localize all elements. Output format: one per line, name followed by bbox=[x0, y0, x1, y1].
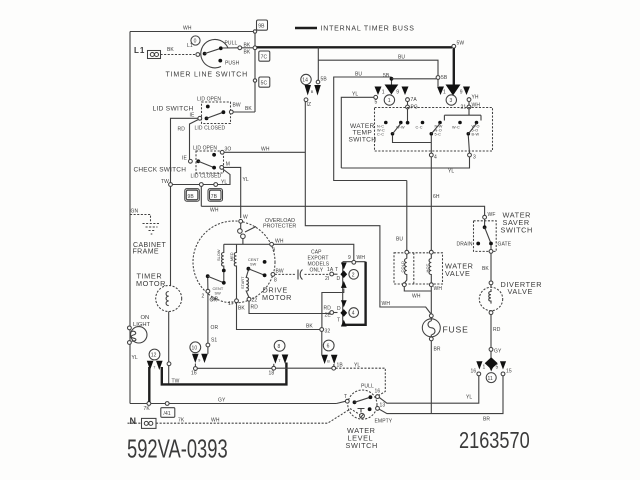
wire motor internal WH line bbox=[224, 243, 270, 245]
svg-text:BU: BU bbox=[398, 55, 405, 61]
svg-text:3: 3 bbox=[473, 155, 476, 161]
svg-text:1: 1 bbox=[382, 90, 385, 96]
switch 8 bbox=[269, 340, 289, 376]
svg-text:WH: WH bbox=[210, 208, 219, 214]
svg-text:9: 9 bbox=[396, 90, 399, 96]
svg-text:RD: RD bbox=[178, 127, 186, 133]
svg-text:L1: L1 bbox=[134, 46, 145, 55]
wire 6H pin4 down to hot valve bbox=[430, 157, 432, 250]
wire YL loop bottom to pin3 bbox=[341, 157, 469, 168]
svg-text:18: 18 bbox=[269, 371, 275, 377]
wire BU switch1 to cold valve outer loop bbox=[334, 77, 407, 181]
wire switch10 to switch8 row bbox=[197, 367, 331, 369]
svg-text:WH: WH bbox=[357, 255, 366, 261]
wire internal timer buss main bbox=[257, 46, 453, 48]
wire switch12 right leg to switch8 thick bbox=[162, 363, 287, 385]
wire temp poles to pins 4 and 3 bbox=[393, 136, 470, 154]
svg-text:TEMP: TEMP bbox=[353, 130, 373, 137]
wire motor 17 BK to node 32 bbox=[237, 303, 320, 330]
svg-text:11: 11 bbox=[488, 376, 494, 382]
svg-text:WH: WH bbox=[275, 239, 284, 245]
svg-text:YL: YL bbox=[466, 395, 472, 401]
svg-text:6: 6 bbox=[327, 344, 330, 350]
wire lid switch to buss BK bbox=[233, 111, 255, 113]
svg-text:BK: BK bbox=[167, 47, 174, 53]
svg-text:YL: YL bbox=[352, 92, 358, 98]
wire N line to water level empty bbox=[128, 409, 361, 423]
svg-text:5B: 5B bbox=[383, 73, 390, 79]
svg-text:7K: 7K bbox=[178, 418, 185, 424]
wire check M to row corner bbox=[218, 169, 231, 185]
svg-text:8: 8 bbox=[278, 344, 281, 350]
svg-text:5C: 5C bbox=[261, 81, 268, 87]
svg-text:W: W bbox=[243, 215, 248, 221]
svg-text:BK: BK bbox=[306, 324, 313, 330]
svg-text:CHECK SWITCH: CHECK SWITCH bbox=[134, 167, 187, 174]
ground cabinet frame bbox=[143, 224, 161, 235]
svg-text:GY: GY bbox=[494, 349, 502, 355]
svg-text:VALVE: VALVE bbox=[445, 269, 470, 278]
wire water saver BK to diverter bbox=[490, 253, 492, 287]
wire switch12 left leg 7K bbox=[148, 367, 150, 402]
svg-text:T: T bbox=[278, 359, 281, 363]
svg-text:COLD: COLD bbox=[400, 261, 405, 273]
svg-text:13: 13 bbox=[380, 403, 386, 409]
svg-text:BW: BW bbox=[276, 269, 284, 275]
svg-text:VALVE: VALVE bbox=[508, 287, 533, 296]
svg-text:M: M bbox=[226, 162, 230, 168]
node motor terminal 9 WH bbox=[270, 242, 274, 246]
svg-text:LID OPEN: LID OPEN bbox=[193, 145, 217, 151]
wire TW down to timer motor bbox=[170, 186, 172, 285]
switch 12 bbox=[147, 349, 163, 370]
svg-text:GY: GY bbox=[218, 398, 226, 404]
water temp contacts bbox=[377, 121, 480, 137]
svg-text:C-C: C-C bbox=[416, 126, 423, 130]
svg-text:5-C: 5-C bbox=[435, 133, 442, 137]
svg-text:YL: YL bbox=[243, 177, 249, 183]
switch 6 bbox=[321, 340, 343, 370]
on light lamp bbox=[127, 326, 147, 344]
wire switch14 down WH dash to check line bbox=[304, 102, 306, 152]
svg-text:15: 15 bbox=[506, 369, 512, 375]
capacitor C1 dashed link bbox=[275, 267, 338, 282]
wire YL switch1 pin5 loop bbox=[341, 97, 374, 168]
svg-text:IZ: IZ bbox=[307, 102, 312, 108]
node motor W terminal bbox=[239, 219, 243, 223]
svg-text:SWITCH: SWITCH bbox=[501, 226, 533, 235]
svg-text:4: 4 bbox=[352, 311, 355, 317]
svg-text:/41: /41 bbox=[164, 411, 171, 417]
svg-text:LID CLOSED: LID CLOSED bbox=[191, 174, 222, 180]
svg-text:EMPTY: EMPTY bbox=[375, 419, 393, 425]
svg-text:12: 12 bbox=[151, 353, 157, 359]
svg-text:BK: BK bbox=[245, 106, 252, 112]
svg-text:9: 9 bbox=[348, 255, 351, 261]
svg-text:0: 0 bbox=[194, 39, 197, 45]
svg-text:YL: YL bbox=[448, 169, 454, 175]
svg-text:9: 9 bbox=[198, 359, 200, 363]
svg-text:17: 17 bbox=[228, 301, 234, 307]
svg-text:MOTOR: MOTOR bbox=[136, 279, 166, 288]
svg-text:YL: YL bbox=[221, 180, 227, 186]
svg-text:IE: IE bbox=[182, 156, 187, 162]
wire GY diagonal to water level T bbox=[336, 401, 345, 403]
svg-text:1B: 1B bbox=[337, 363, 344, 369]
node motor terminal 22 bbox=[247, 297, 251, 301]
svg-text:1: 1 bbox=[483, 365, 486, 371]
wire left border to GY bottom line bbox=[130, 403, 336, 405]
svg-text:BR: BR bbox=[434, 347, 441, 353]
wire buss end 5W down to switch3 bbox=[452, 44, 456, 48]
svg-text:MOTOR: MOTOR bbox=[262, 293, 292, 302]
svg-text:W-C: W-C bbox=[452, 126, 460, 130]
svg-text:TIMER LINE SWITCH: TIMER LINE SWITCH bbox=[166, 72, 248, 79]
water level switch bbox=[344, 384, 393, 425]
wire motor 22 RD to switch4 bbox=[249, 301, 330, 313]
node 7B connector row bbox=[208, 189, 223, 202]
svg-text:592VA-0393: 592VA-0393 bbox=[127, 435, 228, 464]
svg-text:9: 9 bbox=[460, 90, 463, 96]
wire buss tap down at 318 bbox=[317, 47, 319, 80]
svg-text:2: 2 bbox=[202, 294, 205, 300]
svg-text:OR: OR bbox=[211, 297, 219, 303]
switch 10 bbox=[190, 342, 208, 377]
svg-text:SW: SW bbox=[215, 292, 222, 296]
svg-text:C-C: C-C bbox=[377, 133, 384, 137]
timer line switch U0 bbox=[191, 36, 253, 68]
svg-text:PULL: PULL bbox=[361, 384, 374, 390]
water valve hot solenoid bbox=[425, 250, 433, 286]
svg-text:N: N bbox=[130, 416, 137, 426]
svg-text:BU: BU bbox=[355, 72, 362, 78]
svg-text:WH: WH bbox=[382, 301, 391, 307]
svg-text:5: 5 bbox=[496, 365, 499, 371]
svg-text:9B: 9B bbox=[188, 194, 195, 200]
svg-text:SW: SW bbox=[250, 263, 257, 267]
svg-text:5W: 5W bbox=[457, 41, 465, 47]
svg-text:RD: RD bbox=[324, 306, 332, 312]
wire L1 to timer line switch BK bbox=[161, 54, 196, 56]
svg-text:5: 5 bbox=[375, 100, 378, 106]
wire motor 2 OR down to switch 10 bbox=[207, 293, 209, 354]
svg-text:1: 1 bbox=[443, 90, 446, 96]
svg-text:8: 8 bbox=[274, 278, 277, 284]
wire check switch WH to right bbox=[224, 151, 305, 153]
switch 14 bbox=[301, 74, 321, 108]
svg-text:DRAIN: DRAIN bbox=[457, 242, 473, 248]
node block terminal 9 WH bbox=[352, 260, 356, 264]
svg-text:D: D bbox=[337, 276, 341, 282]
svg-text:RD: RD bbox=[493, 327, 501, 333]
svg-text:22: 22 bbox=[252, 298, 258, 304]
svg-text:S1: S1 bbox=[211, 338, 217, 344]
svg-text:T: T bbox=[335, 267, 338, 273]
svg-text:14: 14 bbox=[302, 78, 308, 84]
lid switch bbox=[153, 97, 241, 133]
svg-text:INTERNAL TIMER BUSS: INTERNAL TIMER BUSS bbox=[321, 26, 415, 33]
wire top WH line L1 side bbox=[130, 31, 253, 33]
svg-text:BW: BW bbox=[233, 103, 241, 109]
svg-text:7C: 7C bbox=[261, 55, 268, 61]
node 5C connector bbox=[259, 77, 270, 87]
switch 4 bbox=[324, 300, 359, 326]
ground GN wire bbox=[130, 215, 151, 223]
svg-text:2: 2 bbox=[352, 273, 355, 279]
wire BU down to cold valve bbox=[406, 181, 408, 251]
svg-text:9: 9 bbox=[273, 248, 276, 254]
svg-text:BU: BU bbox=[396, 237, 403, 243]
motor slow winding bbox=[217, 244, 226, 272]
motor med winding bbox=[230, 244, 237, 299]
node 7C connector bbox=[259, 51, 270, 61]
svg-text:WH: WH bbox=[211, 418, 220, 424]
svg-text:MED: MED bbox=[230, 252, 234, 261]
svg-text:16: 16 bbox=[191, 371, 197, 377]
svg-text:FRAME: FRAME bbox=[133, 249, 160, 256]
timer motor bbox=[156, 286, 182, 312]
svg-text:3: 3 bbox=[450, 98, 453, 104]
svg-text:WH: WH bbox=[261, 147, 270, 153]
svg-text:T: T bbox=[344, 394, 347, 400]
svg-text:7A: 7A bbox=[411, 97, 418, 103]
svg-text:T: T bbox=[337, 318, 340, 324]
diverter valve bbox=[479, 281, 502, 315]
connector N plug bbox=[142, 418, 157, 428]
wire block step to node 32 bbox=[322, 289, 344, 328]
svg-text:PUSH: PUSH bbox=[225, 61, 240, 67]
wire buss branch to SB switch3 bbox=[318, 60, 438, 75]
connector L1 plug bbox=[148, 51, 161, 59]
svg-text:B: B bbox=[327, 360, 330, 364]
water valve box bbox=[394, 253, 474, 284]
svg-text:YH: YH bbox=[472, 95, 479, 101]
svg-text:5B: 5B bbox=[441, 75, 448, 81]
wire left border L1 vertical bbox=[129, 32, 131, 404]
wire diverter RD down to switch11 bbox=[490, 315, 492, 348]
svg-text:16: 16 bbox=[471, 369, 477, 375]
svg-text:6H: 6H bbox=[433, 194, 440, 200]
wire row to long WH line bbox=[200, 186, 202, 206]
wire water level 13 BR right bbox=[379, 376, 503, 414]
svg-text:WH: WH bbox=[412, 294, 421, 300]
fuse bbox=[422, 314, 468, 341]
svg-text:B-W: B-W bbox=[472, 133, 480, 137]
svg-text:CENT: CENT bbox=[213, 287, 224, 291]
svg-text:4: 4 bbox=[434, 155, 437, 161]
svg-text:3O: 3O bbox=[225, 147, 232, 153]
svg-text:YL: YL bbox=[354, 363, 360, 369]
svg-text:5B: 5B bbox=[321, 77, 328, 83]
node 32 junction bbox=[320, 328, 324, 332]
wire motor WH line out to block bbox=[274, 244, 354, 260]
svg-text:LID SWITCH: LID SWITCH bbox=[153, 106, 194, 113]
svg-text:SLOW: SLOW bbox=[217, 249, 221, 261]
terminal block box bbox=[343, 262, 366, 325]
svg-text:BK: BK bbox=[482, 266, 489, 272]
node motor terminal 17 bbox=[235, 299, 239, 303]
drive motor boundary bbox=[193, 221, 275, 303]
svg-text:FUSE: FUSE bbox=[443, 325, 469, 335]
svg-text:ONLY: ONLY bbox=[310, 268, 324, 274]
svg-text:SWITCH: SWITCH bbox=[349, 137, 377, 144]
water saver switch bbox=[457, 212, 512, 253]
svg-text:BR: BR bbox=[483, 417, 490, 423]
svg-text:7K: 7K bbox=[144, 406, 151, 412]
svg-text:CENT: CENT bbox=[248, 258, 259, 262]
svg-text:2I: 2I bbox=[325, 276, 329, 282]
svg-text:OR: OR bbox=[211, 325, 219, 331]
wire valve bottoms WH join bbox=[404, 287, 431, 314]
svg-text:WH: WH bbox=[183, 26, 192, 32]
svg-text:SWITCH: SWITCH bbox=[346, 441, 378, 450]
wire check M to motor YL bbox=[224, 167, 241, 218]
svg-text:RD: RD bbox=[251, 305, 259, 311]
node 9B connector top bbox=[257, 20, 268, 30]
internal timer buss legend bbox=[295, 26, 415, 33]
wire switch3 WH into box contacts bbox=[444, 109, 481, 121]
motor cent sw upper bbox=[247, 258, 284, 284]
svg-text:1A: 1A bbox=[327, 267, 334, 273]
wire lid common down to TW row bbox=[171, 118, 198, 182]
svg-text:ON: ON bbox=[141, 315, 150, 321]
wire TW row bbox=[172, 184, 213, 186]
svg-text:9B: 9B bbox=[258, 24, 265, 30]
svg-text:TW: TW bbox=[161, 179, 169, 185]
svg-text:10: 10 bbox=[192, 346, 198, 352]
svg-text:PULL: PULL bbox=[225, 41, 238, 47]
svg-text:GN: GN bbox=[131, 209, 139, 215]
svg-text:WF: WF bbox=[488, 212, 496, 218]
svg-text:D: D bbox=[337, 306, 341, 312]
motor cent sw lower bbox=[202, 272, 226, 303]
svg-text:START: START bbox=[241, 276, 245, 289]
wire timer motor down TW bbox=[168, 312, 170, 385]
node 41 connector bbox=[161, 408, 175, 418]
svg-text:B: B bbox=[311, 90, 314, 94]
switch 1 cluster bbox=[374, 85, 418, 125]
svg-text:7B: 7B bbox=[211, 194, 218, 200]
svg-text:1: 1 bbox=[388, 98, 391, 104]
switch 2 bbox=[334, 263, 359, 288]
water temp switch box bbox=[349, 108, 493, 152]
water valve cold solenoid bbox=[400, 250, 409, 286]
wire node32 down to switch6 bbox=[321, 331, 323, 354]
wire SB link to 5W vertical bbox=[392, 78, 437, 80]
svg-text:2163570: 2163570 bbox=[459, 428, 530, 454]
svg-text:BK: BK bbox=[238, 306, 245, 312]
svg-text:PROTECTER: PROTECTER bbox=[263, 224, 296, 230]
svg-text:BK: BK bbox=[244, 50, 251, 56]
wire switch6 YL to water level 16 bbox=[336, 368, 386, 395]
svg-text:WH: WH bbox=[434, 286, 443, 292]
wire timer buss vertical 9B-7C-5C bbox=[254, 30, 256, 112]
wire water level 16 YL right to switch11 bbox=[379, 376, 479, 404]
switch 11 bbox=[471, 351, 512, 382]
check switch bbox=[134, 145, 232, 179]
svg-text:W-W: W-W bbox=[396, 126, 405, 130]
svg-text:YL: YL bbox=[132, 355, 138, 361]
label cap export models only bbox=[308, 250, 330, 274]
svg-text:7: 7 bbox=[153, 366, 155, 370]
svg-text:LID CLOSED: LID CLOSED bbox=[195, 126, 226, 132]
wire long WH line to water saver bbox=[201, 206, 484, 215]
svg-text:GATE: GATE bbox=[498, 242, 512, 248]
svg-text:16: 16 bbox=[375, 389, 381, 395]
wire lid common to check switch RD bbox=[190, 120, 199, 160]
svg-text:IE: IE bbox=[190, 113, 195, 119]
wire fuse BR down to BR line bbox=[430, 341, 432, 414]
switch 3 cluster bbox=[437, 85, 480, 111]
svg-text:32: 32 bbox=[325, 329, 331, 335]
overload protector symbol bbox=[238, 223, 256, 244]
node 9B connector row bbox=[185, 189, 200, 202]
wire check WH down and across to fuse bbox=[305, 152, 430, 314]
motor start winding bbox=[241, 270, 249, 298]
